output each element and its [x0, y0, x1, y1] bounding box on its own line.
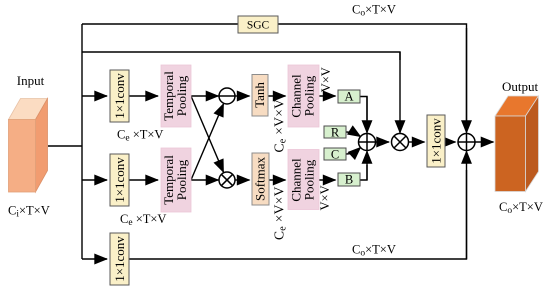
wire trunk vertical: [81, 24, 83, 259]
Tanh box: [252, 75, 268, 117]
wire line2 to multiplier2: [82, 52, 400, 60]
wire conv4 to adder2: [445, 141, 456, 143]
adder node 1: [359, 134, 376, 151]
wire top line1 through SGC: [82, 24, 467, 131]
wire adder2 to output cube: [475, 141, 493, 143]
SGC box: [238, 16, 278, 33]
wire R to adder1: [346, 132, 361, 137]
svg-text:Pooling: Pooling: [174, 75, 189, 116]
wire tp1 to subtract node: [191, 95, 218, 97]
svg-text:Softmax: Softmax: [253, 156, 268, 201]
svg-text:Pooling: Pooling: [302, 75, 317, 116]
subtract node: [219, 88, 235, 104]
wire diagonal tp1 to multiply node1: [191, 96, 224, 172]
svg-text:V×V: V×V: [319, 67, 333, 92]
wire diagonal tp2 to subtract node: [191, 104, 224, 180]
channel pooling 2: [288, 150, 319, 210]
svg-text:C: C: [331, 148, 339, 162]
svg-text:Pooling: Pooling: [302, 159, 317, 200]
svg-text:Input: Input: [17, 73, 45, 88]
wire input cube to trunk: [48, 145, 82, 147]
C box: [324, 148, 346, 162]
svg-text:R: R: [331, 126, 340, 140]
wire branch to conv3: [82, 258, 107, 260]
input cube: [9, 99, 48, 193]
wire multiplier2 to conv4: [409, 141, 425, 143]
temporal pooling 1: [161, 65, 191, 127]
wire tp2 to multiply node1: [191, 179, 218, 181]
wire conv1 to temporal pooling 1: [129, 95, 158, 97]
svg-text:Ce ×T×V: Ce ×T×V: [117, 128, 163, 144]
svg-text:Co×T×V: Co×T×V: [352, 243, 396, 259]
multiply node 2: [392, 134, 409, 151]
wire cp2 to B: [319, 179, 336, 181]
svg-text:SGC: SGC: [247, 20, 270, 32]
svg-text:Ce ×T×V: Ce ×T×V: [120, 212, 166, 228]
wire bottom line conv3 to adder2 bottom: [129, 170, 467, 259]
wire B to adder1 bottom: [360, 165, 367, 180]
A box: [338, 90, 360, 104]
svg-text:1×1conv: 1×1conv: [112, 157, 127, 203]
temporal pooling 2: [161, 148, 191, 212]
conv3 box 1x1conv: [110, 233, 129, 285]
B box: [338, 173, 360, 187]
svg-text:A: A: [344, 90, 353, 104]
wire conv2 to temporal pooling 2: [129, 179, 158, 181]
svg-text:B: B: [345, 173, 353, 187]
channel pooling 1: [288, 65, 319, 127]
wire branch to conv1: [82, 95, 107, 97]
svg-text:Ce ×V×V: Ce ×V×V: [272, 99, 289, 153]
svg-text:V×V: V×V: [318, 185, 332, 210]
wire Softmax to channel pooling 2: [269, 179, 286, 181]
wire Tanh to channel pooling 1: [268, 95, 286, 97]
svg-text:Ce ×V×V: Ce ×V×V: [271, 186, 288, 240]
wire cp1 to A: [319, 95, 336, 97]
svg-text:Co×T×V: Co×T×V: [499, 200, 543, 216]
svg-text:1×1conv: 1×1conv: [429, 118, 444, 164]
wire multiply1 to Softmax: [235, 179, 250, 181]
svg-text:Ci×T×V: Ci×T×V: [8, 204, 50, 220]
adder node 2: [458, 134, 475, 151]
wire arrow into adder2 top: [466, 28, 468, 133]
conv4 box 1x1conv: [427, 115, 445, 167]
svg-text:1×1conv: 1×1conv: [112, 236, 127, 282]
wire C to adder1: [346, 147, 361, 154]
wire adder1 to multiplier2: [376, 141, 390, 143]
wire branch to conv2: [82, 179, 107, 181]
Softmax box: [252, 153, 269, 205]
svg-text:Tanh: Tanh: [252, 82, 267, 108]
wire subtract to Tanh: [235, 95, 250, 97]
svg-text:Co×T×V: Co×T×V: [352, 3, 396, 19]
svg-text:1×1conv: 1×1conv: [112, 73, 127, 119]
svg-text:Output: Output: [502, 79, 539, 94]
output cube: [495, 96, 539, 192]
multiply node 1: [219, 172, 235, 188]
R box: [324, 126, 346, 140]
wire A to adder1 top: [360, 97, 367, 121]
conv2 box 1x1conv: [110, 154, 129, 206]
svg-text:Pooling: Pooling: [174, 159, 189, 200]
conv1 box 1x1conv: [110, 70, 129, 122]
